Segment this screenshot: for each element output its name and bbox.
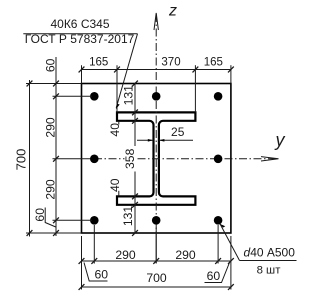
y axis arrow bbox=[261, 157, 279, 161]
svg-text:290: 290 bbox=[175, 248, 196, 262]
web 25 dim bbox=[137, 139, 153, 141]
bolt top-center bbox=[152, 92, 161, 101]
bolt top-left bbox=[90, 92, 99, 101]
plate 700x700 outline bbox=[82, 84, 231, 234]
y axis left extension bbox=[53, 158, 95, 160]
svg-text:8 шт: 8 шт bbox=[257, 265, 282, 277]
top dimension line 165/370/165 bbox=[82, 69, 231, 71]
svg-text:700: 700 bbox=[13, 149, 28, 171]
left outer dimension 700 bbox=[29, 80, 31, 237]
svg-text:y: y bbox=[274, 130, 286, 150]
svg-text:131: 131 bbox=[122, 85, 136, 106]
svg-text:290: 290 bbox=[115, 248, 136, 262]
beam vertical stack dim 131/40/358/40/131 bbox=[134, 84, 136, 234]
dim text 358 backing bbox=[125, 146, 137, 172]
svg-text:131: 131 bbox=[121, 206, 135, 227]
bottom-right 60 leader bbox=[205, 263, 230, 283]
bolt mid-right bbox=[214, 155, 223, 164]
svg-text:60: 60 bbox=[95, 267, 109, 281]
svg-text:700: 700 bbox=[146, 271, 167, 285]
z axis extension below plate bbox=[155, 233, 157, 263]
svg-text:25: 25 bbox=[171, 125, 185, 139]
bottom 700 dim line bbox=[82, 286, 231, 288]
anchor label leader bbox=[220, 224, 239, 261]
bolt bottom-right bbox=[214, 216, 223, 225]
svg-text:370: 370 bbox=[161, 57, 180, 69]
svg-text:ГОСТ Р 57837-2017: ГОСТ Р 57837-2017 bbox=[25, 32, 135, 46]
svg-text:358: 358 bbox=[123, 148, 137, 169]
svg-text:290: 290 bbox=[43, 117, 57, 138]
y axis centerline bbox=[94, 158, 278, 160]
svg-text:60: 60 bbox=[33, 208, 47, 222]
bolt top-right bbox=[214, 92, 223, 101]
svg-text:z: z bbox=[168, 2, 177, 19]
bolt mid-left bbox=[90, 155, 99, 164]
bolt anchor dots bbox=[90, 92, 222, 225]
hook top 40 bbox=[118, 121, 120, 125]
svg-text:40: 40 bbox=[108, 123, 122, 137]
bottom 290/290 dim line bbox=[82, 260, 231, 262]
svg-text:40: 40 bbox=[108, 178, 122, 192]
z axis centerline bbox=[155, 14, 157, 233]
bolt bottom-left bbox=[90, 216, 99, 225]
svg-text:60: 60 bbox=[207, 269, 221, 283]
bolt bottom-center bbox=[152, 216, 161, 225]
beam label leader bbox=[23, 33, 137, 35]
column I-beam 40K6 profile bbox=[117, 112, 195, 204]
svg-text:165: 165 bbox=[89, 57, 108, 69]
svg-text:165: 165 bbox=[204, 57, 223, 69]
left inner dimension 60/290/290/60 bbox=[55, 57, 57, 236]
svg-text:d40 А500: d40 А500 bbox=[244, 245, 296, 259]
hook for bottom-left 60 bbox=[45, 208, 56, 228]
svg-text:60: 60 bbox=[43, 58, 57, 72]
hook bottom 40 bbox=[118, 191, 120, 196]
bottom-left 60 leader bbox=[84, 263, 108, 282]
svg-text:40К6 С345: 40К6 С345 bbox=[50, 17, 109, 31]
z axis arrow bbox=[154, 13, 158, 30]
svg-text:290: 290 bbox=[43, 179, 57, 200]
